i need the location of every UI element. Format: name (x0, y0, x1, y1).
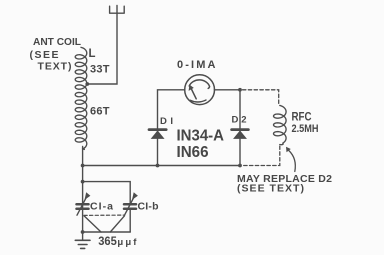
svg-text:365: 365 (98, 234, 117, 248)
wire main bottom rail (83, 165, 240, 167)
antenna ANT (110, 5, 125, 13)
svg-text:ANT COIL: ANT COIL (33, 36, 82, 48)
arrow pointing to RFC (286, 147, 295, 172)
svg-text:D2: D2 (232, 115, 247, 126)
wire gang bottom rail (83, 231, 131, 233)
wire antenna lead (87, 13, 117, 84)
wire rotor diagonal left (84, 216, 101, 232)
node junction left main (81, 164, 85, 168)
ground (75, 232, 90, 248)
svg-text:TEXT): TEXT) (38, 60, 72, 72)
wire top rail left (D1 corner to meter) (158, 90, 185, 166)
wire C1-b lower lead (129, 210, 131, 232)
svg-text:0-IMA: 0-IMA (177, 59, 216, 71)
wire D2 branch (239, 90, 241, 166)
svg-text:33T: 33T (90, 64, 110, 76)
wire dashed top to RFC (243, 90, 279, 104)
svg-text:66T: 66T (90, 106, 110, 118)
wire rotor diagonal right (110, 216, 124, 232)
svg-text:(SEE TEXT): (SEE TEXT) (237, 182, 304, 194)
dashed gang coupling link (84, 214, 124, 216)
wire coil bottom to ground rail (82, 147, 84, 233)
node junction left gang box (81, 180, 85, 184)
svg-text:(SEE: (SEE (30, 49, 59, 61)
svg-text:CI-b: CI-b (138, 201, 159, 213)
diode D2 (232, 130, 249, 139)
wire meter to D2 node (214, 89, 240, 91)
inductor RFC (274, 105, 287, 144)
wire dashed RFC bottom to rail (243, 146, 280, 166)
node junction ground (81, 230, 85, 234)
svg-text:L: L (89, 46, 96, 60)
svg-text:μμf: μμf (117, 237, 137, 248)
node junction D1 bottom (156, 164, 160, 168)
diode D1 (149, 130, 166, 139)
capacitor C1-a (77, 192, 91, 215)
svg-text:CI-a: CI-a (90, 201, 113, 213)
inductor L ANT coil (75, 47, 87, 149)
node junction D2 top (238, 88, 242, 92)
meter M 0-1MA (185, 75, 215, 105)
svg-text:IN34-A: IN34-A (177, 127, 225, 144)
node junction D2 bottom (238, 164, 242, 168)
svg-text:DI: DI (160, 116, 173, 127)
wire gang box top and right (83, 182, 131, 204)
capacitor C1-b (124, 192, 138, 215)
svg-text:2.5MH: 2.5MH (292, 123, 319, 135)
node coil tap (85, 82, 89, 86)
svg-text:IN66: IN66 (177, 144, 209, 161)
svg-text:RFC: RFC (292, 112, 312, 124)
